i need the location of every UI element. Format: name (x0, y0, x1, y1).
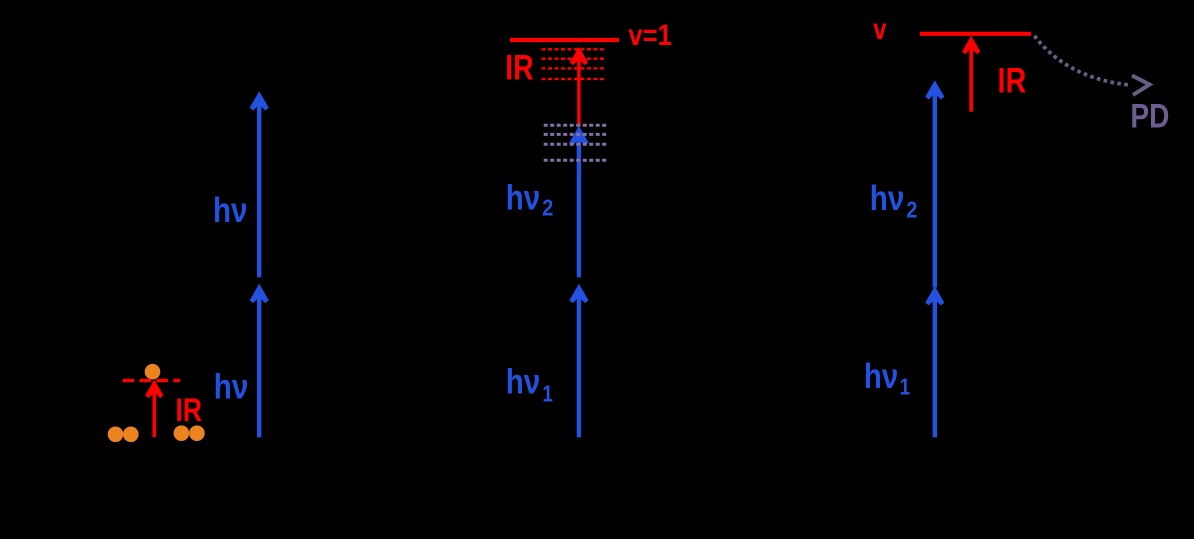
panel 1: blue arrow hv upper shaft (257, 104, 261, 277)
panel 3: purple PD arrow chevron (1132, 76, 1150, 95)
svg-text:hν: hν (214, 368, 249, 407)
panel 2: red v=1 level line (510, 38, 619, 42)
panel 2: red vibrational dashed row 1 (542, 48, 607, 50)
panel 1: red IR arrow head (145, 380, 163, 398)
panel 1: red IR arrow shaft (152, 391, 156, 437)
svg-text:hν: hν (506, 363, 541, 402)
panel 1: excited orange atom (145, 364, 161, 380)
panel 2: purple virtual dashed row 4 (544, 159, 609, 162)
svg-text:v: v (873, 13, 887, 46)
panel 2: blue arrow hv1 head (569, 284, 588, 303)
svg-text:2: 2 (542, 195, 553, 221)
panel 2: red vibrational dashed row 3 (542, 67, 607, 69)
panel 1: blue arrow hv lower shaft (257, 296, 261, 437)
panel 2: purple virtual dashed row 3 (544, 143, 609, 146)
panel 2: purple virtual dashed row 2 (544, 133, 609, 136)
panel 3: blue arrow hv2 shaft (933, 93, 937, 288)
svg-text:IR: IR (176, 392, 203, 428)
panel 1: orange dimer left atom1 (108, 427, 124, 443)
svg-text:1: 1 (542, 380, 553, 406)
panel 3: blue arrow hv1 head (925, 286, 944, 305)
panel 2: blue arrow hv1 shaft (577, 296, 581, 437)
panel 1: red dashed level line (123, 379, 181, 382)
panel 2: blue arrow hv2 head (569, 126, 588, 145)
panel 3: red IR arrow head (962, 36, 980, 54)
panel 1: blue arrow hv upper head (250, 91, 269, 110)
svg-text:IR: IR (998, 61, 1027, 100)
svg-text:hν: hν (864, 357, 898, 396)
panel 1: orange dimer left atom2 (123, 427, 139, 443)
panel 3: blue arrow hv1 shaft (933, 299, 937, 437)
panel 2: red IR arrow head (570, 47, 588, 65)
svg-text:hν: hν (213, 191, 248, 230)
panel 3: red IR arrow shaft (969, 48, 973, 112)
panel 2: red vibrational dashed row 2 (542, 58, 607, 60)
svg-text:1: 1 (900, 373, 911, 399)
panel 2: red vibrational dashed row 4 (542, 78, 607, 80)
svg-text:hν: hν (506, 178, 540, 217)
panel 2: red IR arrow shaft (577, 59, 580, 127)
svg-text:v=1: v=1 (628, 19, 672, 52)
svg-text:2: 2 (906, 197, 917, 223)
svg-text:IR: IR (505, 48, 533, 87)
panel 3: blue arrow hv2 head (925, 80, 944, 99)
svg-text:hν: hν (870, 179, 905, 218)
panel 1: orange dimer right atom1 (174, 425, 190, 441)
panel 1: blue arrow hv lower head (250, 284, 269, 303)
panel 1: orange dimer right atom2 (189, 425, 205, 441)
panel 2: blue arrow hv2 shaft (577, 139, 581, 277)
svg-text:PD: PD (1130, 98, 1169, 136)
panel 3: purple dotted PD curve (1035, 36, 1130, 85)
panel 2: purple virtual dashed row 1 (544, 124, 609, 127)
panel 3: red v level line (920, 32, 1031, 36)
